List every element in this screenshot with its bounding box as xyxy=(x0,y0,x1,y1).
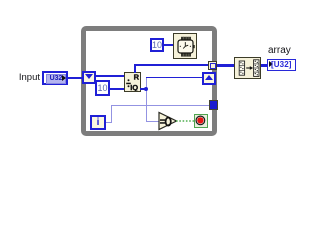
wire i vertical xyxy=(111,105,112,124)
numeric control U32 (Input) xyxy=(42,71,68,85)
quotient & remainder function xyxy=(124,72,141,92)
loop conditional terminal (stop if true) xyxy=(194,114,208,128)
array indicator [U32] xyxy=(267,59,296,72)
right shift register terminal (up arrow) xyxy=(202,72,216,85)
wire R output vertical xyxy=(134,64,136,73)
array label xyxy=(268,45,298,56)
output tunnel (solid, unwired outside) xyxy=(209,100,218,110)
svg-text:IQ: IQ xyxy=(130,83,138,91)
wire IQ branch vertical xyxy=(146,77,147,122)
wire left shift register to quotient-remainder x input xyxy=(96,75,125,77)
indexing tunnel (array out) xyxy=(208,61,217,70)
wire constant 10 to wait function xyxy=(164,44,173,46)
numeric constant 10 (ms timer value) xyxy=(150,38,164,52)
equal to zero? function xyxy=(157,111,179,131)
while loop frame xyxy=(81,26,217,136)
wire i horizontal to output tunnel xyxy=(111,105,209,106)
boolean dashed wire to conditional terminal xyxy=(176,120,195,122)
wire constant 10 to quotient-remainder y input xyxy=(110,88,125,90)
wire IQ output horizontal xyxy=(140,88,147,90)
numeric constant 10 (divisor) xyxy=(95,80,110,96)
reverse 1d array function xyxy=(234,57,261,79)
wait (ms) function (wristwatch icon) xyxy=(173,33,197,59)
thick array wire reverse-array to indicator xyxy=(261,64,267,67)
iteration terminal i xyxy=(90,115,106,130)
wire i terminal jog xyxy=(106,122,112,123)
wire IQ branch to right shift register xyxy=(146,77,202,79)
left shift register terminal (down arrow) xyxy=(82,71,96,84)
wire junction dot xyxy=(144,87,148,91)
wire control to left shift register xyxy=(68,77,82,79)
wire IQ branch to equal-zero input xyxy=(146,121,159,122)
svg-text:R: R xyxy=(134,73,140,82)
Input label xyxy=(10,72,40,83)
wire R output horizontal to indexing tunnel xyxy=(134,64,209,66)
thick array wire tunnel to reverse-array xyxy=(217,64,235,67)
